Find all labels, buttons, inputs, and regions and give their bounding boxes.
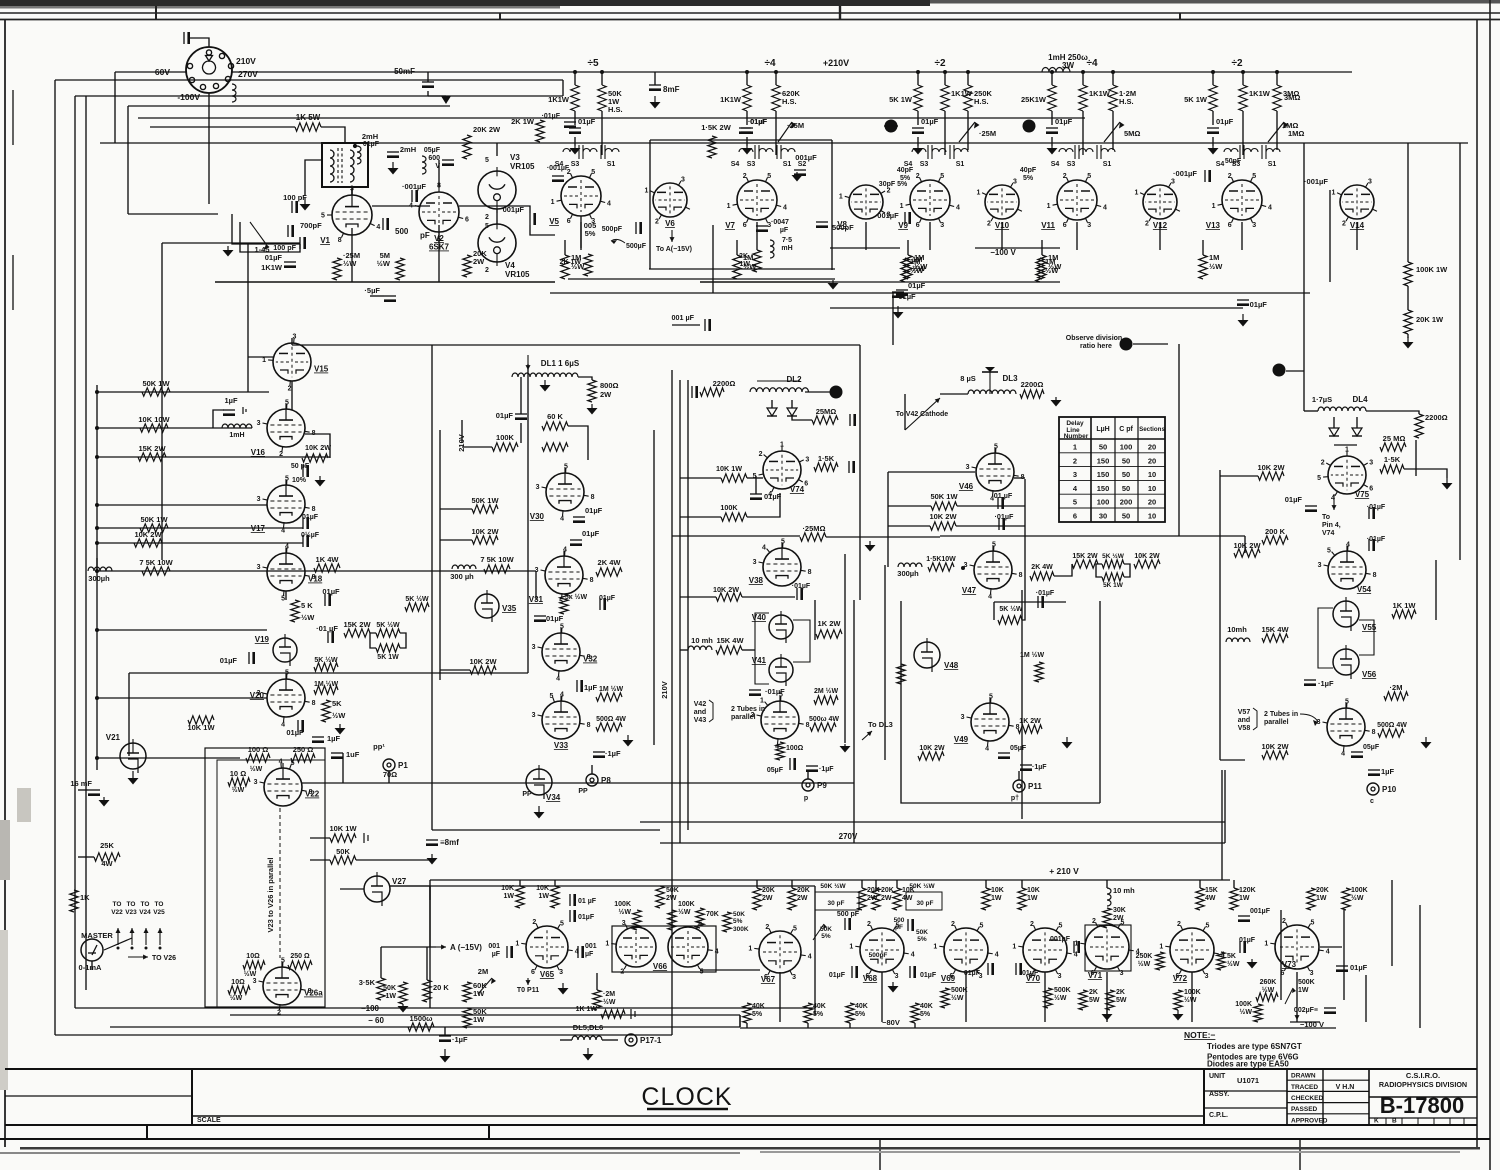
svg-text:15K 4W: 15K 4W — [1261, 625, 1289, 634]
svg-text:V9: V9 — [898, 221, 908, 230]
svg-text:C.P.L.: C.P.L. — [1209, 1112, 1228, 1119]
resistor 10K 2W V49 — [918, 752, 944, 760]
switch contact to V23 — [131, 928, 133, 945]
capacitor gnd stub V16 — [242, 407, 244, 414]
ground 800ohm — [591, 404, 593, 408]
wire V75 left — [1220, 475, 1258, 477]
wire y830 long — [432, 829, 660, 831]
resistor 2K 5W b — [1106, 990, 1114, 1010]
wire right vert x1245 — [1244, 536, 1246, 553]
svg-text:50K: 50K — [383, 985, 396, 992]
resistor 100K V30b — [542, 443, 568, 451]
resistor 50K 5pct — [723, 912, 731, 932]
svg-text:µF: µF — [585, 951, 594, 958]
capacitor .1uF V33 — [593, 751, 605, 753]
wire 70 ohm — [343, 782, 430, 784]
svg-text:300µh: 300µh — [897, 569, 919, 578]
wire x1344 drop — [1343, 910, 1345, 1000]
wire 10K1W V74 a — [680, 477, 721, 479]
tube V72 — [1170, 928, 1214, 972]
svg-text:½W: ½W — [1054, 994, 1067, 1002]
wire rail y143 — [100, 142, 1468, 144]
svg-text:1: 1 — [780, 442, 784, 449]
svg-text:8: 8 — [309, 789, 313, 796]
svg-text:5: 5 — [994, 444, 998, 451]
inductor 10mh bottom — [1107, 888, 1111, 906]
svg-text:4: 4 — [560, 692, 564, 699]
svg-text:01µF: 01µF — [920, 972, 937, 979]
wire v15 grid up — [247, 243, 249, 357]
svg-text:Observe division: Observe division — [1066, 335, 1122, 342]
resistor 1M halfW V19 — [314, 686, 338, 694]
tube V18 — [267, 553, 305, 591]
capacitor -01uF V46 — [998, 518, 1000, 530]
svg-text:·1µF: ·1µF — [605, 749, 621, 758]
svg-text:+210V: +210V — [823, 58, 849, 68]
switch cluster S4 S3 S1 — [1224, 145, 1280, 159]
resistor 500K halfW V69 — [941, 988, 949, 1008]
junction V47 grid — [961, 566, 965, 570]
svg-text:½W: ½W — [232, 786, 245, 794]
svg-text:½W: ½W — [1138, 960, 1151, 968]
svg-text:2: 2 — [655, 218, 659, 225]
svg-text:K: K — [1374, 1118, 1379, 1125]
wire 5uF stub — [370, 295, 384, 297]
svg-text:4: 4 — [956, 204, 960, 211]
capacitor 001uF bottom — [1238, 915, 1250, 917]
svg-text:V7: V7 — [725, 221, 735, 230]
ground stage1 bus — [832, 280, 834, 283]
svg-text:S2: S2 — [798, 161, 807, 168]
wire -100 rail — [230, 1014, 740, 1016]
resistor 100K V74 — [721, 513, 747, 521]
svg-text:pp¹: pp¹ — [373, 742, 385, 751]
svg-text:100K: 100K — [1351, 887, 1368, 894]
resistor 25M DL2 — [812, 416, 838, 424]
svg-text:1W: 1W — [991, 895, 1002, 902]
svg-text:V13: V13 — [1206, 221, 1221, 230]
svg-text:10: 10 — [1148, 470, 1156, 479]
delay line DL5 DL6 — [572, 1036, 602, 1040]
resistor 20K bottom6 1311 — [1307, 888, 1315, 910]
resistor 100K V30 — [492, 443, 518, 451]
svg-text:10K 2W: 10K 2W — [1134, 553, 1160, 560]
wire V47 row 602 — [994, 601, 1066, 603]
svg-text:1: 1 — [1073, 443, 1077, 452]
resistor 200K right — [1262, 536, 1288, 544]
resistor 10K 1W bottom — [516, 886, 524, 908]
capacitor 01uF V68V69 — [909, 966, 911, 978]
resistor 800ohm 2W — [588, 380, 596, 402]
svg-text:S1: S1 — [1268, 161, 1277, 168]
svg-text:APPROVED: APPROVED — [1291, 1117, 1328, 1124]
resistor 20K bottom3 876 — [872, 888, 880, 910]
stage r3 down — [1112, 111, 1114, 150]
resistor 10K 2W V75 — [1258, 472, 1284, 480]
tube V19 — [273, 638, 297, 662]
svg-text:4: 4 — [985, 745, 989, 752]
svg-text:÷5: ÷5 — [587, 58, 598, 69]
stage rail drop 2 — [775, 72, 777, 85]
ground x845 — [844, 744, 846, 746]
svg-text:05µF: 05µF — [1363, 744, 1380, 751]
resistor 500ohm 4W V57 — [1378, 729, 1404, 737]
ground stage — [1212, 146, 1214, 148]
resistor 15K bottom5 1200 — [1196, 888, 1204, 910]
svg-text:5: 5 — [1311, 919, 1315, 926]
svg-text:CHECKED: CHECKED — [1291, 1095, 1323, 1102]
svg-text:8: 8 — [591, 494, 595, 501]
wire y345 long — [432, 344, 860, 346]
wire V6 loop top — [650, 139, 832, 141]
wire 100K V74 b — [747, 493, 780, 517]
svg-text:4: 4 — [1341, 750, 1345, 757]
svg-text:+ 210 V: + 210 V — [1049, 866, 1079, 876]
wire DL56 left — [560, 1039, 572, 1041]
capacitor 01uF V47 — [1037, 596, 1039, 608]
resistor 10K bottom4 986 — [982, 888, 990, 910]
stage cap down — [1212, 137, 1214, 146]
ground V68 low — [892, 982, 894, 986]
wire V15 cathode down — [291, 381, 293, 410]
capacitor stub V66 — [630, 1009, 632, 1019]
svg-text:3: 3 — [681, 177, 685, 184]
svg-text:001µF: 001µF — [877, 211, 899, 220]
resistor 10K 2W V46 — [930, 522, 956, 530]
svg-text:1: 1 — [900, 203, 904, 210]
svg-text:VR105: VR105 — [505, 270, 530, 279]
tube V2 6SK7 — [419, 192, 459, 232]
connector pin — [225, 76, 230, 81]
delay line DL1 — [512, 373, 578, 377]
tube V14 — [1340, 185, 1374, 219]
stage below wire — [1041, 240, 1043, 255]
svg-text:5W: 5W — [1116, 997, 1127, 1004]
resistor 100K halfW V72 — [1174, 990, 1182, 1010]
wire left bus y428 — [97, 427, 252, 429]
resistor 10K 2W V16 — [302, 454, 328, 462]
svg-text:10: 10 — [1148, 484, 1156, 493]
svg-text:100 pF: 100 pF — [283, 193, 307, 202]
svg-text:5: 5 — [560, 920, 564, 927]
wire tube drop x1242 — [1241, 222, 1243, 250]
svg-text:4: 4 — [995, 952, 999, 959]
wire V46 left rail — [887, 472, 889, 567]
stage r2 down — [1242, 111, 1244, 155]
svg-text:10 Ω: 10 Ω — [230, 769, 246, 778]
tube V73 — [1275, 925, 1319, 969]
svg-text:DL1 1 6µS: DL1 1 6µS — [541, 359, 580, 368]
svg-text:S3: S3 — [1067, 161, 1076, 168]
ground V65 — [562, 983, 564, 988]
switch cluster S4 S3 S1 — [1059, 145, 1115, 159]
wire V75 right — [1404, 469, 1447, 478]
wire V27 long right — [390, 885, 815, 887]
tube V71 — [1085, 925, 1129, 969]
svg-text:100 Ω: 100 Ω — [248, 745, 269, 754]
svg-text:V55: V55 — [1362, 623, 1377, 632]
stage rail drop 1 — [746, 72, 748, 85]
svg-text:TO: TO — [127, 901, 136, 908]
svg-text:01µF: 01µF — [546, 614, 564, 623]
svg-text:40pF: 40pF — [897, 167, 914, 174]
resistor 1·2M H.S. — [1109, 85, 1117, 111]
junction — [600, 70, 604, 74]
wire V18 down — [285, 591, 287, 600]
svg-text:1uF: 1uF — [346, 750, 360, 759]
wire A-15V vert — [380, 947, 382, 978]
svg-text:01µF: 01µF — [908, 281, 926, 290]
svg-text:2: 2 — [1092, 918, 1096, 925]
arrow ToA s1 — [671, 230, 673, 242]
svg-text:V49: V49 — [954, 735, 969, 744]
svg-text:5%: 5% — [821, 933, 831, 940]
svg-text:Delay: Delay — [1066, 420, 1084, 427]
svg-text:50K 1W: 50K 1W — [930, 492, 958, 501]
wire left bus vertical x115 — [114, 72, 116, 143]
ground 16mF — [103, 797, 105, 800]
svg-text:2W: 2W — [762, 895, 773, 902]
junction — [1241, 70, 1245, 74]
svg-text:S3: S3 — [920, 161, 929, 168]
svg-text:1·5K: 1·5K — [818, 454, 835, 463]
resistor .2M V56 — [1384, 692, 1408, 700]
wire DL1 cap down — [520, 423, 522, 443]
svg-text:÷4: ÷4 — [1086, 58, 1097, 69]
svg-text:V22: V22 — [111, 909, 123, 916]
capacitor 001uF V70V71 — [1073, 941, 1075, 953]
wire V16 out right — [305, 434, 330, 458]
svg-text:2 Tubes in: 2 Tubes in — [731, 706, 765, 713]
wire -100V drop — [208, 93, 210, 118]
svg-text:5: 5 — [285, 400, 289, 407]
resistor 20K bottom2 — [753, 888, 761, 910]
capacitor 500pF s1 — [635, 222, 637, 234]
svg-text:·01µF: ·01µF — [792, 583, 811, 590]
svg-text:2: 2 — [867, 921, 871, 928]
capacitor 01uF stage — [1046, 127, 1058, 129]
svg-text:120K: 120K — [1239, 887, 1256, 894]
resistor 1M half W stage — [1199, 255, 1207, 279]
ground DL3 — [1055, 397, 1057, 400]
wire 100K V74 a — [680, 516, 721, 518]
svg-text:2: 2 — [743, 173, 747, 180]
svg-text:40pF: 40pF — [1020, 167, 1037, 174]
svg-text:1·5K 2W: 1·5K 2W — [701, 123, 732, 132]
svg-text:SCALE: SCALE — [197, 1117, 221, 1124]
svg-text:300 µh: 300 µh — [450, 572, 474, 581]
wire x1022 vert 270V — [1021, 590, 1023, 819]
svg-text:1: 1 — [748, 946, 752, 953]
svg-text:1W: 1W — [386, 993, 397, 1000]
svg-text:·25MΩ: ·25MΩ — [802, 524, 825, 533]
capacitor 01uF v7 — [739, 127, 751, 129]
arrow to P11 — [527, 978, 529, 985]
svg-text:V56: V56 — [1362, 670, 1377, 679]
delay line DL2 — [750, 388, 809, 392]
wire drop5 1234 — [1233, 880, 1235, 888]
tube V75 — [1328, 456, 1366, 494]
dl2 top bar — [757, 380, 800, 382]
svg-text:6: 6 — [1369, 486, 1373, 493]
wire 001uF y325 stub — [672, 324, 700, 326]
svg-text:1: 1 — [1012, 943, 1016, 950]
svg-text:½W: ½W — [250, 765, 263, 773]
svg-text:To A(−15V): To A(−15V) — [656, 246, 692, 253]
svg-text:pF: pF — [420, 231, 430, 240]
resistor 250K V72 — [1156, 952, 1164, 970]
svg-text:1: 1 — [727, 203, 731, 210]
capacitor 05uF V57 — [1351, 751, 1363, 753]
resistor 10ohm halfW V26 — [243, 961, 265, 969]
junction blob B — [1023, 120, 1036, 133]
capacitor .1uF V42 — [806, 765, 818, 767]
svg-text:1: 1 — [1134, 189, 1138, 196]
svg-text:½W: ½W — [1045, 266, 1059, 275]
svg-text:15K 4W: 15K 4W — [716, 636, 744, 645]
resistor 620K H.S. — [772, 85, 780, 111]
resistor 100K halfW a — [633, 910, 641, 930]
svg-text:·01µF: ·01µF — [1036, 590, 1055, 597]
capacitor 100pF in — [291, 201, 293, 213]
svg-text:1: 1 — [1047, 203, 1051, 210]
svg-text:÷2: ÷2 — [934, 58, 945, 69]
stage rail drop 2 — [944, 72, 946, 85]
resistor 15K 2W — [138, 453, 166, 461]
resistor 15K 4W V40 — [716, 646, 742, 654]
svg-text:·001µF: ·001µF — [1173, 169, 1197, 178]
svg-text:5: 5 — [779, 692, 783, 699]
svg-text:parallel: parallel — [1264, 719, 1289, 726]
wire DL4 right — [1366, 411, 1419, 414]
resistor 60K — [542, 422, 568, 430]
resistor 10K 1W V20 — [188, 716, 214, 724]
wire 5KhalfW link2 — [1022, 603, 1025, 620]
svg-text:DRAWN: DRAWN — [1291, 1073, 1316, 1080]
svg-text:½W: ½W — [912, 264, 926, 273]
ground stage — [1051, 146, 1053, 148]
stage r3 down — [1276, 111, 1278, 150]
svg-text:5: 5 — [485, 223, 489, 230]
resistor 500ohm 4W V33 — [596, 723, 622, 731]
wire 40K drop 915 — [914, 1023, 916, 1028]
svg-text:5%: 5% — [752, 1011, 763, 1018]
svg-text:5K ½W: 5K ½W — [314, 656, 338, 664]
svg-text:4: 4 — [1103, 204, 1107, 211]
wire box right V47 — [1124, 564, 1130, 577]
svg-text:3: 3 — [1310, 970, 1314, 977]
svg-text:01uF: 01uF — [1022, 970, 1039, 977]
wire blob A stub — [884, 125, 898, 127]
ground stage — [917, 146, 919, 148]
svg-text:3: 3 — [1205, 973, 1209, 980]
svg-text:Pin 4,: Pin 4, — [1322, 522, 1341, 529]
svg-text:½W: ½W — [1240, 1008, 1253, 1016]
svg-text:4: 4 — [281, 527, 285, 534]
resistor 50K 1W H.S. — [598, 85, 606, 111]
svg-text:H.S.: H.S. — [974, 97, 989, 106]
wire bottom tube drop x780 — [779, 972, 781, 1022]
svg-text:V54: V54 — [1357, 585, 1372, 594]
svg-text:V6: V6 — [665, 219, 675, 228]
svg-text:5%: 5% — [733, 918, 743, 925]
wire box left V47 — [1096, 564, 1102, 577]
ground 01uF a — [392, 162, 394, 168]
svg-text:µF: µF — [780, 227, 789, 234]
svg-text:1µF: 1µF — [584, 683, 597, 692]
stage rail drop 1 — [917, 72, 919, 85]
wire right vert x1436 — [1435, 560, 1437, 620]
resistor 25K 4W — [94, 853, 120, 861]
wire cap bc — [444, 1027, 446, 1036]
arrow To V42 — [905, 398, 940, 430]
svg-text:200 K: 200 K — [1265, 527, 1286, 536]
svg-text:5: 5 — [767, 173, 771, 180]
capacitor DL2 left — [691, 386, 693, 398]
wire stage5 001uF link — [1329, 190, 1331, 282]
resistor 20K 2W b — [463, 255, 471, 277]
connector pin — [187, 63, 192, 68]
resistor 120K bottom5 1234 — [1230, 888, 1238, 910]
capacitor 25M right — [849, 414, 851, 426]
svg-text:P1: P1 — [398, 761, 408, 770]
stage rail drop 1 — [1212, 72, 1214, 85]
svg-text:5%: 5% — [585, 229, 596, 238]
svg-text:5: 5 — [281, 595, 285, 602]
wire P11 up — [1018, 771, 1020, 780]
capacitor 01uF stage — [912, 127, 924, 129]
wire V2 plate up — [438, 160, 440, 187]
svg-text:Triodes are type 6SN7GT: Triodes are type 6SN7GT — [1207, 1042, 1302, 1051]
svg-text:5K 1W: 5K 1W — [889, 95, 913, 104]
resistor 1K 1W V66 — [601, 1010, 625, 1018]
resistor .25M left — [800, 533, 826, 541]
capacitor 01uF 1K1W — [284, 261, 296, 263]
title strip frame — [0, 1069, 1490, 1170]
svg-text:150: 150 — [1097, 484, 1110, 493]
svg-text:3: 3 — [1369, 460, 1373, 467]
capacitor 01uF V30 — [573, 516, 585, 518]
svg-text:5: 5 — [940, 173, 944, 180]
svg-text:½W: ½W — [1262, 986, 1275, 994]
svg-text:2W: 2W — [881, 895, 892, 902]
svg-text:8: 8 — [1016, 724, 1020, 731]
svg-text:V34: V34 — [546, 793, 561, 802]
junction — [774, 70, 778, 74]
stage below wire — [1202, 240, 1204, 255]
svg-text:700pF: 700pF — [300, 221, 322, 230]
wire tube drop x1077 — [1076, 222, 1078, 250]
svg-text:2: 2 — [485, 267, 489, 274]
svg-text:50: 50 — [1122, 470, 1130, 479]
tube V42 V43 — [761, 701, 799, 739]
svg-text:001 µF: 001 µF — [671, 313, 694, 322]
capacitor 01uF V72V73 — [1239, 941, 1241, 953]
wire tube drop x1160 — [1159, 222, 1161, 250]
svg-text:30 pF: 30 pF — [828, 900, 845, 907]
svg-text:T0 P11: T0 P11 — [517, 987, 539, 994]
resistor 1.5K 2W — [708, 136, 716, 158]
ground DL1 — [544, 380, 546, 385]
svg-text:500pF: 500pF — [869, 952, 888, 959]
capacitor 01uF stage — [741, 127, 753, 129]
svg-text:10Ω: 10Ω — [231, 979, 245, 986]
svg-text:-100V: -100V — [177, 92, 200, 102]
capacitor 001uF mid2 — [1204, 170, 1206, 182]
ground 20K right — [1407, 337, 1409, 342]
svg-text:2: 2 — [532, 919, 536, 926]
resistor 40K 5pct 808 — [804, 1003, 812, 1023]
